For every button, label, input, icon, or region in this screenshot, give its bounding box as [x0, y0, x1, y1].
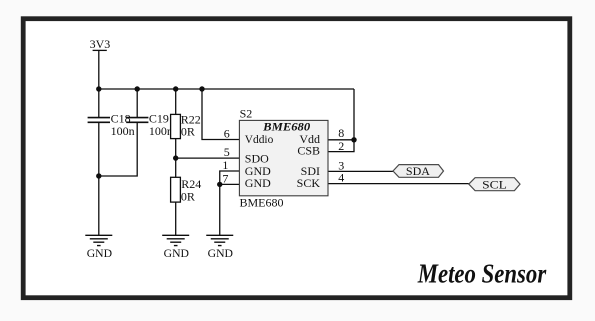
wire GND3 stem [219, 184, 221, 235]
wire C19 top [136, 89, 138, 118]
svg-text:6: 6 [224, 126, 230, 140]
wire R22 top [175, 89, 177, 114]
net flag SDA [393, 164, 444, 178]
junction pin1-pin7 [217, 182, 222, 187]
wire Vddio pin6 [202, 89, 239, 140]
svg-text:100n: 100n [111, 124, 135, 138]
svg-text:SCK: SCK [297, 176, 321, 190]
wire 3V3 rail [99, 88, 354, 90]
resistor R22 [171, 112, 201, 138]
junction rail-C18 [96, 86, 101, 91]
wire R24 bottom [175, 202, 177, 235]
wire SCK pin4 [328, 183, 469, 185]
svg-text:0R: 0R [181, 125, 195, 139]
svg-text:S2: S2 [240, 107, 253, 121]
svg-text:BME680: BME680 [240, 195, 284, 209]
wire Vdd drop [353, 89, 355, 140]
wire C18 top [98, 89, 100, 118]
svg-text:GND: GND [164, 247, 189, 260]
power 3V3 bar [93, 49, 107, 51]
wire 3V3 stem [98, 50, 100, 89]
IC S2 BME680 [239, 107, 328, 210]
junction rail-C19 [135, 86, 140, 91]
wire SDI pin3 [328, 170, 393, 172]
wire GND pin1 [220, 171, 240, 184]
svg-text:CSB: CSB [297, 144, 320, 158]
wire R22 bottom [175, 139, 177, 159]
svg-text:5: 5 [224, 145, 230, 159]
net flag SCL [469, 177, 520, 191]
svg-text:GND: GND [245, 176, 271, 190]
wire R24 top [175, 158, 177, 177]
wire C19 bottom [99, 122, 137, 176]
junction rail-R22 [173, 86, 178, 91]
svg-text:1: 1 [222, 158, 228, 172]
svg-text:Vddio: Vddio [245, 132, 273, 146]
capacitor C18 [88, 112, 135, 139]
wire SDO pin5 [176, 157, 240, 159]
resistor R24 [171, 177, 202, 203]
svg-text:SDA: SDA [406, 164, 430, 178]
ground GND2 [162, 235, 189, 260]
wire GND1 stem [98, 176, 100, 235]
ground GND1 [85, 235, 112, 260]
wire C18 bottom [98, 122, 100, 176]
wire CSB pin2 [328, 140, 354, 152]
ground GND3 [206, 235, 233, 260]
svg-text:4: 4 [338, 171, 344, 185]
svg-text:0R: 0R [181, 189, 195, 203]
svg-text:7: 7 [222, 171, 228, 185]
svg-text:GND: GND [87, 247, 112, 260]
svg-text:3V3: 3V3 [90, 37, 111, 51]
wire Vdd pin8 [328, 139, 354, 141]
junction rail-pin6 [199, 86, 204, 91]
svg-text:100n: 100n [149, 124, 173, 138]
svg-text:2: 2 [338, 139, 344, 153]
capacitor C19 [126, 112, 173, 139]
svg-text:Meteo Sensor: Meteo Sensor [417, 259, 547, 289]
svg-text:GND: GND [208, 247, 233, 260]
junction Vdd-CSB [351, 137, 356, 142]
junction R22-R24-SDO [173, 155, 178, 160]
wire GND pin7 [220, 183, 240, 185]
junction C18-C19-GND [96, 173, 101, 178]
svg-text:SCL: SCL [482, 177, 507, 191]
